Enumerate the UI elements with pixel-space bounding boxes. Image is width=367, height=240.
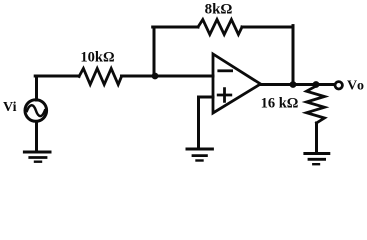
terminal Vo open circle	[335, 82, 342, 89]
op-amp plus input sign	[218, 89, 231, 102]
svg-text:Vi: Vi	[3, 100, 17, 115]
resistor R2 8k	[198, 20, 242, 35]
node junction dot input	[152, 73, 159, 80]
voltage source Vi	[25, 100, 47, 122]
svg-text:16 kΩ: 16 kΩ	[261, 96, 299, 112]
wire source bottom to ground	[35, 122, 38, 152]
resistor R3 16k vertical	[307, 86, 325, 123]
wire op-amp output to terminal	[261, 83, 336, 86]
op-amp minus input sign	[219, 69, 232, 72]
op-amp U1	[213, 54, 261, 113]
svg-text:10kΩ: 10kΩ	[80, 50, 114, 66]
svg-text:8kΩ: 8kΩ	[205, 2, 233, 18]
wire feedback right vertical	[292, 26, 295, 85]
wire source top to main line	[35, 76, 38, 100]
wire feedback top right segment	[242, 26, 293, 29]
wire 10k to op-amp inverting input	[122, 75, 214, 78]
ground under source	[24, 152, 50, 162]
wire feedback left vertical	[153, 27, 156, 76]
ground under op-amp	[187, 149, 212, 161]
wire non-inverting input to ground	[199, 97, 214, 148]
wire feedback top left segment	[153, 26, 198, 29]
junction dot load node	[313, 81, 320, 88]
wire 16k to ground	[315, 123, 318, 152]
resistor R1 10k	[79, 69, 122, 85]
svg-text:Vo: Vo	[347, 79, 365, 94]
junction dot feedback-output node	[290, 81, 297, 88]
wire main line left segment	[35, 75, 79, 78]
ground under 16k	[305, 154, 329, 165]
